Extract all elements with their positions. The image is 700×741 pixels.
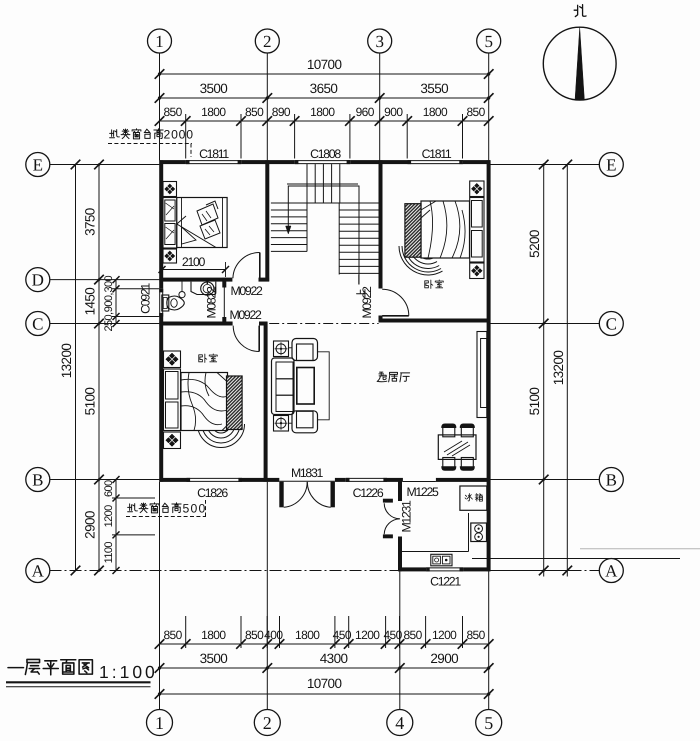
svg-text:1100: 1100 [103,542,115,564]
bedroom1 headboard and pillows [163,198,177,249]
staircase landing edges [287,183,358,185]
svg-text:3500: 3500 [200,651,228,666]
svg-text:C1221: C1221 [430,575,461,589]
axis circle E right [599,153,623,177]
staircase direction line with arrow [288,186,359,285]
top dimension sub line 850-1800 row [160,120,489,122]
svg-text:C1226: C1226 [353,486,384,500]
staircase left flight treads [271,209,307,211]
svg-text:1:100: 1:100 [99,662,158,682]
svg-text:2900: 2900 [83,511,98,539]
bedroom2 label woshi [425,280,433,288]
svg-text:13200: 13200 [59,344,74,379]
living sofa side table north [274,341,289,357]
living TV cabinet [477,332,487,418]
axis line 5 vertical top segment [488,53,490,160]
wall: bedroom2 south [379,319,491,323]
svg-text:C1808: C1808 [310,147,341,161]
svg-text:10700: 10700 [307,57,342,72]
annotation cilei chuangtai gao 2000 [110,130,120,138]
kitchen refrigerator label bingxiang [465,494,472,501]
north label bei [574,5,586,17]
svg-text:M0922: M0922 [230,284,263,298]
annotation cilei chuangtai gao 500 [128,504,138,512]
faint gray line top right of A circle [580,548,700,550]
svg-text:1800: 1800 [310,105,335,119]
svg-text:900,: 900, [103,293,115,313]
wall: stair hall east (axis 3) [379,160,383,288]
svg-text:C1826: C1826 [197,486,228,500]
living sofa side table south [274,416,289,432]
staircase right flight treads [339,209,379,211]
left sub dimension line 300/900/250 bathroom window [115,280,117,324]
dining chair north-west [442,424,456,428]
svg-text:4: 4 [395,713,404,733]
svg-text:3: 3 [375,32,384,51]
left sub dimension line 600/1200/1100 below B [115,480,117,571]
svg-text:E: E [606,156,616,175]
svg-text:300: 300 [103,275,115,292]
axis circle 2 top [255,29,279,53]
axis line E horizontal right stub [490,164,599,166]
left inner dimension line 3750/1450/5100/2900 [98,165,100,571]
bottom dimension sub line 850-1800 row [160,643,489,645]
axis circle D left [26,268,50,292]
svg-text:1200: 1200 [355,628,380,642]
bedroom1 bed body [177,198,227,248]
axis circle A left [26,559,50,583]
svg-text:10700: 10700 [307,676,342,691]
bedroom3 nightstand north [164,351,181,368]
door M0922 bedroom2 (leaf and arc) [382,315,409,317]
axis line 4 vertical bottom segment [399,571,401,709]
svg-text:1800: 1800 [295,628,320,642]
svg-text:850: 850 [466,105,485,119]
living coffee table [297,368,314,405]
wall: kitchen west (axis 4) [398,478,402,501]
window C1826 (south wall bedroom3) [187,478,243,483]
bedroom3 blanket roll hatched [227,376,243,430]
svg-text:C: C [32,315,43,334]
svg-text:M1231: M1231 [400,500,414,533]
bedroom1 nightstand north [163,182,177,197]
north arrow compass [543,27,616,100]
door M0922 bedroom3 (leaf and arc) [258,326,260,352]
axis circle 4 bottom [387,710,413,736]
bedroom2 blanket roll hatched [405,204,421,258]
bedroom2 rug arcs [415,246,435,259]
wall: C axis west segment [159,322,232,326]
svg-text:M1225: M1225 [406,485,439,499]
window C0921 (west wall bathroom) [159,289,164,317]
axis circle 1 bottom [147,710,173,736]
bedroom2 nightstand north [470,181,484,197]
bathroom floor drain line and circle [181,282,183,292]
right outer dimension line 13200 [566,165,568,577]
svg-text:4300: 4300 [320,651,348,666]
svg-text:2900: 2900 [430,651,458,666]
wall: bedroom1 south / bathroom north [159,278,232,282]
wall: exterior north (E axis) [159,160,490,164]
bathroom toilet [162,295,169,311]
svg-text:5: 5 [484,713,493,733]
axis line 1 vertical top segment [159,53,161,160]
bedroom2 bed body [421,201,470,258]
bedroom2 nightstand south [470,263,484,279]
axis circle B right [599,468,623,492]
dining table [438,435,476,460]
axis line D horizontal left stub [50,279,160,281]
kitchen sink double basin [431,554,452,566]
svg-text:C0921: C0921 [139,283,153,314]
axis circle 3 top [368,29,392,53]
wall: exterior south main (B axis) [159,478,186,482]
svg-text:M1831: M1831 [291,466,324,480]
axis line 1 vertical bottom segment [159,482,161,710]
top dimension line 10700 [160,73,489,75]
door M0822 leaf line [223,288,225,318]
axis line 2 vertical bottom segment [266,482,268,710]
svg-text:600: 600 [103,480,115,497]
axis line A dash-dot full width [50,570,600,572]
svg-text:B: B [32,471,43,490]
living room label qijuting [377,372,387,382]
axis circle 5 top [477,29,501,53]
kitchen stove with burners [471,523,487,542]
title yiceng pingmiantu [8,667,23,669]
svg-text:2000: 2000 [164,128,194,142]
svg-text:C: C [606,315,617,334]
extra thin line right of kitchen at y558 [472,558,680,560]
label 2100 dimension bathroom [162,269,226,271]
wall: bathroom east [222,278,226,288]
axis circle 1 top [148,29,172,53]
wall: exterior west [159,160,163,481]
dining chair south-east [460,467,474,471]
svg-text:13200: 13200 [551,351,566,386]
living armchair south [292,411,318,433]
axis line 3 vertical top segment [379,53,381,160]
wall: exterior south kitchen (A axis) [398,567,490,571]
svg-text:850: 850 [245,628,264,642]
svg-text:5100: 5100 [527,388,542,416]
window C1221 (kitchen south wall) [426,567,463,572]
staircase upper flight treads [306,164,308,203]
axis line 2 vertical top segment [266,53,268,160]
axis line C horizontal left stub [50,323,160,325]
svg-text:1200: 1200 [432,628,457,642]
axis line C dash-dot through living room opening [269,323,378,325]
svg-text:D: D [32,271,44,290]
axis circle A right [599,559,623,583]
svg-text:1800: 1800 [423,105,448,119]
axis circle 2 bottom [254,710,280,736]
bathroom wash basin [191,282,216,295]
axis circle B left [26,468,50,492]
svg-text:2: 2 [263,713,272,733]
svg-text:C1811: C1811 [199,147,229,161]
bottom dimension line 3500/4300/2900 [160,667,489,669]
bottom dimension line 10700 [160,693,489,695]
svg-text:3550: 3550 [420,81,448,96]
svg-text:1: 1 [155,713,164,733]
svg-text:960: 960 [356,105,375,119]
bedroom3 bed body [181,373,228,431]
window C1811 right (north wall) [408,160,463,165]
axis circle 5 bottom [476,710,502,736]
bedroom3 label woshi [199,354,207,362]
axis line E horizontal left stub [50,164,160,166]
door M1831 entrance double leaves and arcs [279,482,283,508]
right extension lines [490,164,572,166]
bedroom1 nightstand south [163,249,177,263]
svg-text:1800: 1800 [201,105,226,119]
living armchair north [292,339,318,361]
wall: bedroom3 east [264,322,268,482]
axis line B horizontal right stub [490,479,599,481]
svg-text:C1811: C1811 [422,147,452,161]
svg-text:850: 850 [163,105,182,119]
left outer dimension line 13200 [75,165,77,571]
axis circle C right [599,312,623,336]
svg-text:1: 1 [155,32,164,51]
door M1225 threshold line [403,481,436,483]
bedroom3 rug arcs [212,424,230,433]
staircase up label [357,290,365,298]
bottom extension lines [185,616,187,648]
door M0922 bedroom1 (leaf and arc) [259,253,261,279]
svg-text:A: A [32,562,45,581]
top extension lines at window edges [185,114,187,159]
window C1811 left (north wall) [186,160,241,165]
svg-text:2: 2 [263,32,272,51]
bedroom3 nightstand south [164,432,181,449]
kitchen counter lines [468,513,470,552]
bedroom1 quilt fold triangle [177,224,216,248]
svg-text:B: B [606,471,617,490]
svg-text:E: E [33,156,43,175]
bedroom1 quilt decoration [197,204,218,225]
svg-text:850: 850 [245,105,264,119]
svg-text:1450: 1450 [83,288,98,316]
svg-text:A: A [605,562,618,581]
window C1808 (north wall stairs) [295,160,350,165]
svg-text:1800: 1800 [201,628,226,642]
svg-text:M0822: M0822 [205,286,219,319]
svg-text:5: 5 [484,32,493,51]
dining chair south-west [442,467,456,471]
axis circle C left [26,312,50,336]
svg-text:3650: 3650 [310,81,338,96]
top dimension line 3500/3650/3550 [160,97,489,99]
svg-text:5100: 5100 [83,388,98,416]
door M1231 double leaves and arcs [383,499,393,503]
window C1226 (south wall living) [346,478,387,483]
title underline double [6,681,151,683]
svg-text:850: 850 [466,628,485,642]
right inner dimension line 5200/5100 [543,165,545,577]
svg-text:890: 890 [272,105,291,119]
svg-text:M0922: M0922 [360,286,374,319]
bedroom2 headboard pillows [470,198,484,263]
living sofa group boundary line [318,352,330,420]
living sofa 3-seat [272,358,295,415]
svg-text:M0922: M0922 [229,308,262,322]
svg-text:900: 900 [384,105,403,119]
svg-text:500: 500 [183,502,207,516]
axis circle E left [26,153,50,177]
svg-text:2100: 2100 [182,255,206,269]
wall: interior axis2 bedroom1 east [265,160,269,281]
axis line 5 vertical bottom segment [488,571,490,709]
wall: exterior east [487,160,491,571]
axis line B horizontal left stub [50,479,160,481]
svg-text:850: 850 [163,628,182,642]
svg-text:3500: 3500 [200,81,228,96]
svg-text:1200: 1200 [103,505,115,528]
svg-text:3750: 3750 [83,208,98,236]
bedroom3 headboard pillows [164,369,181,431]
svg-text:850: 850 [403,628,422,642]
svg-text:250,: 250, [103,312,115,332]
kitchen refrigerator box [460,486,487,510]
dining chair north-east [460,424,474,428]
axis line C horizontal right stub [490,323,599,325]
svg-text:5200: 5200 [527,230,542,258]
